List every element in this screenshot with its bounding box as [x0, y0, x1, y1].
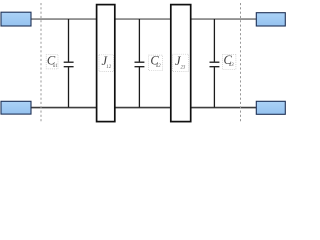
reference plane dashed line right [240, 3, 242, 122]
label Ca1 [46, 54, 58, 69]
wire top rail left segment [31, 18, 96, 20]
wire top rail middle segment [115, 18, 170, 20]
capacitor Ca3 [210, 19, 220, 107]
wire top rail right segment [191, 18, 256, 20]
port P1 (top-left blue box) [1, 12, 31, 26]
svg-text:12: 12 [106, 65, 111, 70]
J-inverter J12 box [97, 5, 115, 122]
label Ca2 [149, 53, 163, 70]
capacitor Ca2 [135, 19, 145, 107]
port P4 (bottom-right blue box) [256, 101, 285, 114]
svg-text:a1: a1 [53, 64, 58, 69]
reference plane dashed line left [40, 3, 42, 122]
wire bottom rail middle segment [115, 107, 170, 109]
port P2 (bottom-left blue box) [1, 101, 31, 114]
port P3 (top-right blue box) [256, 13, 285, 26]
wire bottom rail left segment [31, 107, 96, 109]
J-inverter J23 box [171, 5, 191, 122]
label J23 [172, 54, 188, 71]
capacitor Ca1 [64, 19, 74, 107]
svg-text:a2: a2 [156, 64, 161, 69]
svg-text:a3: a3 [229, 63, 234, 68]
label Ca3 [222, 53, 236, 69]
wire bottom rail right segment [191, 107, 256, 109]
label J12 [99, 54, 114, 71]
svg-text:23: 23 [181, 66, 186, 71]
